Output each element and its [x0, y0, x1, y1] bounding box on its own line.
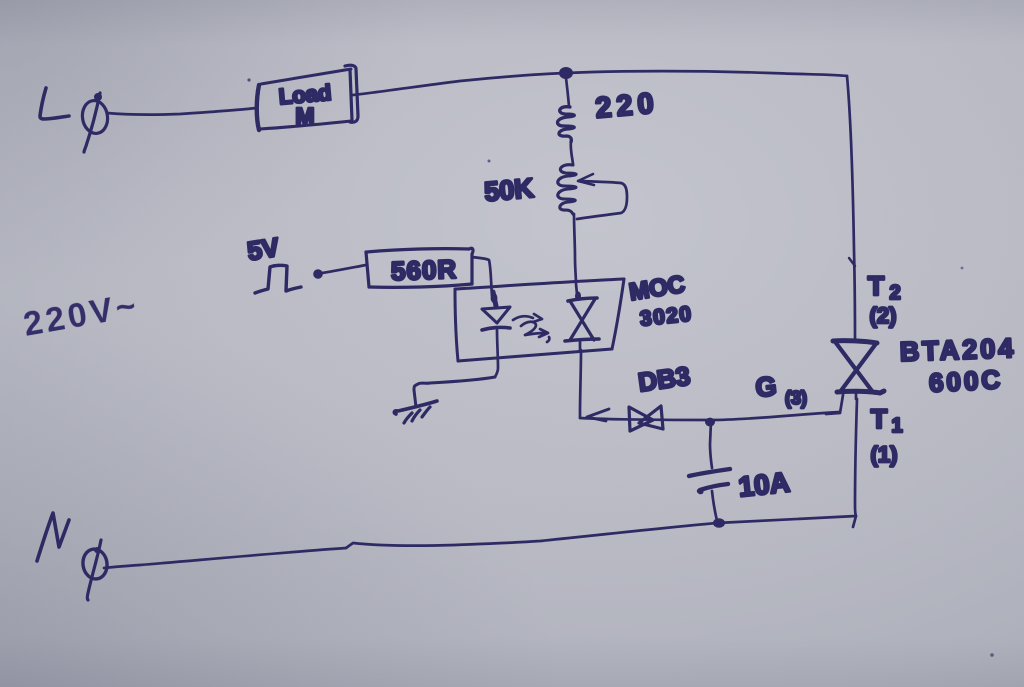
- svg-text:(1): (1): [871, 442, 898, 467]
- svg-text:5V: 5V: [245, 232, 282, 267]
- wire 5V dot to 560R: [322, 265, 366, 273]
- svg-text:50K: 50K: [483, 173, 535, 207]
- node capacitor top junction: [705, 418, 715, 427]
- svg-text:220: 220: [594, 87, 660, 124]
- svg-text:M: M: [295, 103, 314, 129]
- resistor 220 (squiggle): [558, 78, 575, 142]
- wire capacitor junction to N jog: [346, 523, 717, 548]
- triac Q1 BTA204: [833, 341, 884, 399]
- photo-triac inside MOC3020: [565, 298, 599, 350]
- label T1: [871, 404, 903, 437]
- svg-text:(2): (2): [870, 303, 897, 328]
- svg-text:600C: 600C: [928, 364, 1004, 398]
- svg-text:560R: 560R: [390, 254, 457, 286]
- resistor 560R box: [366, 248, 473, 287]
- svg-text:T: T: [871, 404, 888, 434]
- gate horizontal wire: [580, 412, 840, 420]
- wire pot to MOC photo-triac: [574, 214, 577, 294]
- node LED anode dot: [491, 293, 498, 303]
- wire bottom corner to capacitor junction: [717, 516, 856, 527]
- phi symbol at N: [81, 540, 109, 600]
- node capacitor bottom junction: [713, 518, 725, 528]
- ground: [394, 401, 437, 423]
- potentiometer 50K (squiggle): [558, 165, 576, 214]
- LED inside MOC3020: [482, 292, 510, 377]
- light arrows: [513, 314, 549, 342]
- svg-text:1: 1: [891, 415, 902, 437]
- terminal L: [40, 88, 69, 119]
- phi symbol at L: [80, 93, 109, 152]
- svg-text:BTA204: BTA204: [899, 333, 1017, 367]
- wire N jog to phi N: [104, 548, 346, 568]
- diac DB3: [629, 406, 663, 431]
- wire Load box to node A: [353, 73, 565, 95]
- terminal dot 5V input: [313, 269, 323, 279]
- svg-text:G: G: [754, 371, 778, 403]
- pot wiper arrow and loop: [577, 174, 627, 219]
- wire 220 to pot: [571, 141, 573, 164]
- svg-text:(3): (3): [785, 388, 807, 408]
- wire LED cathode to ground: [414, 377, 495, 407]
- svg-text:10A: 10A: [737, 466, 791, 502]
- wire 560R to LED anode: [472, 257, 492, 296]
- wire gate to triac: [826, 395, 843, 414]
- label G(3): [754, 371, 807, 408]
- capacitor C1: [689, 421, 730, 521]
- pulse input symbol: [255, 265, 301, 293]
- terminal N: [37, 513, 69, 561]
- wire L to Load box: [107, 108, 256, 115]
- svg-text:2: 2: [889, 282, 900, 304]
- svg-text:T: T: [868, 271, 885, 301]
- node A junction dot: [559, 67, 573, 79]
- label T2: [868, 271, 901, 304]
- wire node A to top-right corner: [566, 71, 847, 76]
- wire T1 down to bottom corner: [855, 399, 857, 516]
- load M1 box (Load / M): [257, 65, 358, 130]
- ink specks: [247, 78, 993, 656]
- optocoupler U1 MOC3020 box: [455, 279, 624, 361]
- wire right vertical (to triac T2): [847, 76, 855, 340]
- arrowhead on gate wire: [587, 409, 609, 421]
- node photo-triac top dot: [575, 291, 581, 300]
- wire MOC pin to gate line (down): [580, 350, 581, 418]
